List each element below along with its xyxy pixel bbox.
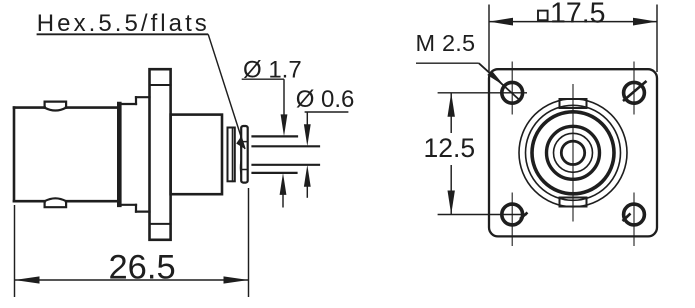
svg-text:12.5: 12.5 bbox=[424, 133, 476, 163]
svg-text:Hex.5.5/flats: Hex.5.5/flats bbox=[37, 10, 210, 37]
svg-text:Ø 0.6: Ø 0.6 bbox=[296, 86, 355, 113]
svg-text:17.5: 17.5 bbox=[550, 0, 605, 29]
svg-text:Ø 1.7: Ø 1.7 bbox=[243, 57, 302, 84]
svg-text:26.5: 26.5 bbox=[109, 249, 176, 287]
svg-text:M 2.5: M 2.5 bbox=[416, 30, 476, 56]
